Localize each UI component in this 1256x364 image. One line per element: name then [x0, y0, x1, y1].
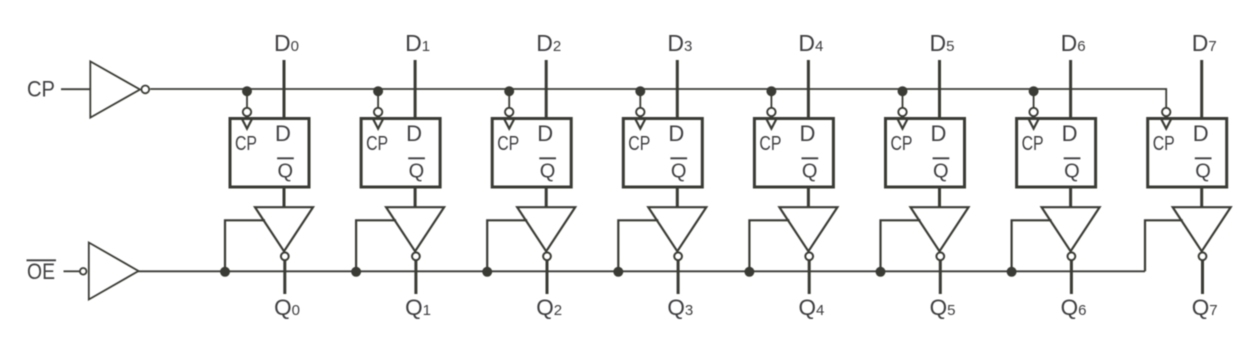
svg-text:Q3: Q3 — [667, 295, 693, 320]
tri-state inverter stage 7 — [1173, 207, 1231, 251]
wire FF1 Q-bar to output buffer — [414, 186, 417, 208]
label Q5 output — [930, 295, 956, 320]
wire enable tap stage 2 — [487, 220, 527, 271]
node CP junction stage 5 — [898, 86, 908, 96]
flip-flop FF4 body — [754, 119, 833, 188]
dynamic clock-input marker FF2 — [504, 118, 515, 129]
wire D7 input vertical — [1200, 60, 1203, 118]
inversion bubble on FF0 clock pin — [243, 108, 251, 116]
svg-text:Q: Q — [278, 161, 294, 183]
svg-text:Q0: Q0 — [274, 295, 300, 320]
flip-flop FF7 body — [1148, 119, 1227, 188]
svg-text:D: D — [668, 121, 684, 146]
dynamic clock-input marker FF3 — [635, 118, 646, 129]
label D5 data input — [930, 30, 955, 56]
wire CP tap stub stage 4 — [770, 89, 772, 108]
wire CP tap stub stage 2 — [508, 89, 510, 108]
label Q7 output — [1192, 295, 1218, 320]
pin label Q-bar of FF1 — [408, 158, 425, 182]
node CP junction stage 6 — [1029, 86, 1039, 96]
wire D1 input vertical — [414, 60, 417, 118]
wire Q0 output vertical — [283, 260, 286, 294]
flip-flop FF3 body — [623, 119, 702, 188]
wire D2 input vertical — [545, 60, 548, 118]
svg-text:D: D — [537, 121, 553, 146]
flip-flop FF5 body — [886, 119, 965, 188]
wire D5 input vertical — [938, 60, 941, 118]
svg-text:CP: CP — [891, 133, 913, 155]
wire Q6 output vertical — [1070, 260, 1073, 294]
svg-text:D7: D7 — [1192, 30, 1217, 56]
svg-text:D: D — [799, 121, 815, 146]
node OE junction stage 2 — [482, 267, 492, 277]
pin label D of FF5 — [931, 121, 947, 146]
pin label Q-bar of FF2 — [539, 158, 556, 182]
wire Q3 output vertical — [677, 260, 680, 294]
wire FF3 Q-bar to output buffer — [676, 186, 679, 208]
inversion bubble on tri-state output 4 — [805, 252, 813, 260]
label D6 data input — [1061, 30, 1086, 56]
inversion bubble on tri-state output 7 — [1199, 252, 1207, 260]
label Q2 output — [536, 295, 562, 320]
wire OE input stub — [64, 270, 80, 272]
pin label D of FF3 — [668, 121, 684, 146]
dynamic clock-input marker FF1 — [373, 118, 384, 129]
wire FF2 Q-bar to output buffer — [545, 186, 548, 208]
svg-text:CP: CP — [1153, 133, 1175, 155]
pin label CP of FF2 — [497, 133, 519, 155]
pin label Q-bar of FF3 — [670, 158, 687, 182]
dynamic clock-input marker FF6 — [1028, 118, 1039, 129]
wire FF6 Q-bar to output buffer — [1069, 186, 1072, 208]
label OE-bar input (with overline) — [27, 259, 57, 284]
svg-text:CP: CP — [1022, 133, 1044, 155]
inversion bubble on tri-state output 6 — [1068, 252, 1076, 260]
svg-text:Q7: Q7 — [1192, 295, 1218, 320]
pin label CP of FF0 — [235, 133, 257, 155]
inversion bubble on FF4 clock pin — [767, 108, 775, 116]
svg-text:D2: D2 — [536, 30, 561, 56]
node CP junction stage 0 — [242, 86, 252, 96]
node CP junction stage 1 — [373, 86, 383, 96]
inversion bubble on FF5 clock pin — [898, 108, 906, 116]
inversion bubble on tri-state output 0 — [281, 252, 289, 260]
wire enable tap stage 3 — [618, 220, 658, 271]
svg-text:Q6: Q6 — [1061, 295, 1087, 320]
pin label Q-bar of FF0 — [277, 158, 294, 182]
pin label CP of FF3 — [628, 133, 650, 155]
node CP junction stage 4 — [766, 86, 776, 96]
svg-text:Q4: Q4 — [798, 295, 824, 320]
svg-text:Q2: Q2 — [536, 295, 562, 320]
wire enable tap stage 6 — [1012, 220, 1052, 271]
svg-text:CP: CP — [497, 133, 519, 155]
svg-text:Q: Q — [933, 161, 949, 183]
pin label Q-bar of FF4 — [802, 158, 819, 182]
inversion bubble on tri-state output 5 — [936, 252, 944, 260]
wire D3 input vertical — [676, 60, 679, 118]
wire FF7 Q-bar to output buffer — [1200, 186, 1203, 208]
node CP junction stage 2 — [504, 86, 514, 96]
tri-state inverter stage 2 — [517, 207, 575, 251]
pin label D of FF0 — [275, 121, 291, 146]
svg-text:D: D — [406, 121, 422, 146]
wire CP tap stub stage 5 — [902, 89, 904, 108]
pin label Q-bar of FF5 — [933, 158, 950, 182]
wire D4 input vertical — [807, 60, 810, 118]
wire Q4 output vertical — [808, 260, 811, 294]
svg-text:CP: CP — [759, 133, 781, 155]
svg-text:Q: Q — [802, 161, 818, 183]
inversion bubble on FF1 clock pin — [374, 108, 382, 116]
wire Q2 output vertical — [546, 260, 549, 294]
node CP junction stage 3 — [635, 86, 645, 96]
inversion bubble on tri-state output 3 — [674, 252, 682, 260]
inverter U1 CP clock buffer — [90, 61, 140, 117]
label Q3 output — [667, 295, 693, 320]
label D0 data input — [274, 30, 299, 56]
label Q1 output — [405, 295, 431, 320]
pin label D of FF6 — [1062, 121, 1078, 146]
label D7 data input — [1192, 30, 1217, 56]
inversion bubble on tri-state output 1 — [412, 252, 420, 260]
label Q4 output — [798, 295, 824, 320]
svg-text:D: D — [1062, 121, 1078, 146]
pin label Q-bar of FF7 — [1195, 158, 1212, 182]
node OE junction stage 0 — [220, 267, 230, 277]
svg-text:Q: Q — [1195, 161, 1211, 183]
pin label CP of FF1 — [366, 133, 388, 155]
wire CP tap stub stage 1 — [377, 89, 379, 108]
label Q0 output — [274, 295, 300, 320]
label CP input — [27, 77, 55, 102]
dynamic clock-input marker FF4 — [766, 118, 777, 129]
node OE junction stage 1 — [351, 267, 361, 277]
svg-text:D: D — [931, 121, 947, 146]
svg-text:Q: Q — [1064, 161, 1080, 183]
wire Q7 output vertical — [1201, 260, 1204, 294]
inversion bubble on tri-state output 2 — [543, 252, 551, 260]
tri-state inverter stage 4 — [779, 207, 837, 251]
wire enable tap stage 5 — [881, 220, 921, 271]
wire CP rail (internal clock line) — [150, 89, 1166, 108]
pin label CP of FF4 — [759, 133, 781, 155]
inversion bubble on FF6 clock pin — [1029, 108, 1037, 116]
label D2 data input — [536, 30, 561, 56]
svg-text:D: D — [275, 121, 291, 146]
wire CP tap stub stage 3 — [639, 89, 641, 108]
dynamic clock-input marker FF5 — [897, 118, 908, 129]
wire enable tap stage 7 — [1145, 220, 1183, 271]
svg-text:Q: Q — [671, 161, 687, 183]
svg-text:OE: OE — [27, 259, 55, 284]
inversion bubble on FF2 clock pin — [505, 108, 513, 116]
flip-flop FF2 body — [492, 119, 571, 188]
svg-text:Q1: Q1 — [405, 295, 431, 320]
pin label Q-bar of FF6 — [1064, 158, 1081, 182]
flip-flop FF0 body — [230, 119, 309, 188]
tri-state inverter stage 6 — [1042, 207, 1100, 251]
svg-text:CP: CP — [366, 133, 388, 155]
wire enable tap stage 4 — [749, 220, 789, 271]
node OE junction stage 5 — [876, 267, 886, 277]
buffer U2 OE output-enable driver — [89, 243, 139, 300]
label D4 data input — [798, 30, 823, 56]
pin label D of FF1 — [406, 121, 422, 146]
svg-text:CP: CP — [27, 77, 55, 102]
tri-state inverter stage 0 — [255, 207, 313, 251]
wire enable tap stage 0 — [225, 220, 265, 271]
inversion bubble on U2 input — [80, 268, 87, 275]
pin label CP of FF6 — [1022, 133, 1044, 155]
svg-text:CP: CP — [235, 133, 257, 155]
flip-flop FF6 body — [1017, 119, 1096, 188]
wire Q1 output vertical — [414, 260, 417, 294]
wire Q5 output vertical — [939, 260, 942, 294]
node OE junction stage 6 — [1007, 267, 1017, 277]
wire CP tap stub stage 6 — [1033, 89, 1035, 108]
inversion bubble on FF3 clock pin — [636, 108, 644, 116]
svg-text:D0: D0 — [274, 30, 299, 56]
svg-text:Q: Q — [540, 161, 556, 183]
wire D0 input vertical — [283, 60, 286, 118]
svg-text:CP: CP — [628, 133, 650, 155]
wire enable tap stage 1 — [356, 220, 396, 271]
pin label CP of FF7 — [1153, 133, 1175, 155]
tri-state inverter stage 3 — [648, 207, 706, 251]
wire FF4 Q-bar to output buffer — [807, 186, 810, 208]
pin label D of FF4 — [799, 121, 815, 146]
label Q6 output — [1061, 295, 1087, 320]
inversion bubble on U1 output — [141, 86, 149, 94]
pin label CP of FF5 — [891, 133, 913, 155]
dynamic clock-input marker FF0 — [242, 118, 253, 129]
svg-text:Q: Q — [409, 161, 425, 183]
wire CP input stub — [61, 88, 90, 90]
svg-text:D6: D6 — [1061, 30, 1086, 56]
label D1 data input — [405, 30, 430, 56]
flip-flop FF1 body — [361, 119, 440, 188]
tri-state inverter stage 5 — [911, 207, 969, 251]
wire OE rail (enable line) — [138, 270, 1146, 272]
node OE junction stage 3 — [613, 267, 623, 277]
wire CP tap stub stage 0 — [246, 89, 248, 108]
svg-text:D5: D5 — [930, 30, 955, 56]
pin label D of FF2 — [537, 121, 553, 146]
tri-state inverter stage 1 — [386, 207, 444, 251]
svg-text:D: D — [1193, 121, 1209, 146]
svg-text:Q5: Q5 — [930, 295, 956, 320]
svg-text:D3: D3 — [667, 30, 692, 56]
inversion bubble on FF7 clock pin — [1162, 108, 1170, 116]
node OE junction stage 4 — [744, 267, 754, 277]
svg-text:D1: D1 — [405, 30, 430, 56]
pin label D of FF7 — [1193, 121, 1209, 146]
wire FF5 Q-bar to output buffer — [938, 186, 941, 208]
wire FF0 Q-bar to output buffer — [283, 186, 286, 208]
dynamic clock-input marker FF7 — [1161, 118, 1172, 129]
wire D6 input vertical — [1069, 60, 1072, 118]
svg-text:D4: D4 — [798, 30, 823, 56]
label D3 data input — [667, 30, 692, 56]
